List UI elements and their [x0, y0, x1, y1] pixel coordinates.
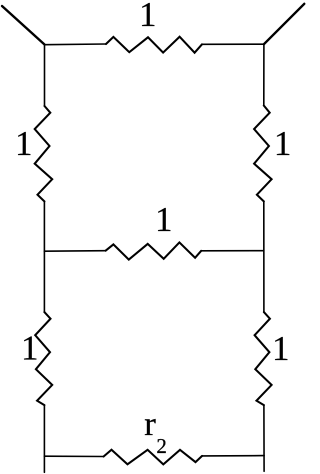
- wire left rail mid: [43, 201, 45, 312]
- resistor R4 value 1 (left lower vertical): [35, 312, 52, 405]
- resistor R6 value 1 (right lower vertical): [255, 312, 272, 405]
- wire left rail lower: [43, 405, 45, 472]
- resistor R2 value 1 (left upper vertical): [35, 106, 53, 201]
- resistor r2 (bottom horizontal): [104, 450, 203, 465]
- wire diagonal top-right: [264, 4, 304, 44]
- resistor R3 value 1 (right upper vertical): [254, 106, 272, 202]
- wire right rail mid: [263, 201, 265, 312]
- wire bottom-right lead: [202, 455, 264, 457]
- wire diagonal top-left: [2, 6, 45, 45]
- svg-text:1: 1: [274, 124, 292, 163]
- wire top-left lead: [45, 43, 107, 46]
- svg-text:1: 1: [15, 124, 33, 163]
- wire top-right lead: [202, 43, 264, 45]
- wire left rail upper: [44, 45, 46, 107]
- wire bottom-left lead: [44, 455, 103, 457]
- svg-text:1: 1: [21, 328, 39, 367]
- wire middle-left lead: [44, 250, 105, 253]
- wire middle-right lead: [201, 250, 264, 252]
- svg-text:1: 1: [272, 329, 290, 368]
- svg-text:1: 1: [139, 0, 157, 34]
- resistor R5 value 1 (middle horizontal): [106, 242, 202, 259]
- wire right rail lower: [263, 405, 265, 471]
- wire right rail upper: [263, 44, 265, 105]
- svg-text:2: 2: [156, 434, 167, 458]
- svg-text:1: 1: [155, 200, 173, 239]
- resistor R1 value 1 (top horizontal): [106, 37, 202, 53]
- svg-text:r: r: [144, 406, 156, 443]
